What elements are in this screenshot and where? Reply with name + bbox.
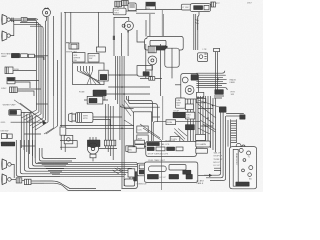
buzzer motor (43, 8, 51, 20)
node dash junctions (119, 74, 125, 95)
wire coil lead (146, 46, 165, 70)
body connector LH (1, 142, 15, 146)
wire generator leads (113, 5, 137, 56)
wire wiper leads (93, 117, 122, 125)
seat belt buzzer cluster (137, 163, 150, 176)
label washer (3, 105, 17, 107)
console column box (134, 112, 152, 147)
node harness junction (42, 121, 46, 125)
main bus left verticals (36, 50, 48, 122)
wire console feeds (124, 109, 160, 117)
wire cross horizontals (60, 116, 134, 129)
label list rear (213, 151, 223, 167)
wire main floor bundle (38, 162, 160, 176)
light switch LS (181, 4, 194, 10)
wire horn RR riser (10, 21, 14, 36)
wire floor harness inner (39, 148, 76, 161)
tail lamp plug (104, 140, 115, 146)
wire LS link (194, 6, 197, 8)
rear body connector boxes (196, 141, 210, 153)
connector park LF (11, 53, 34, 57)
wire right edge marks (194, 14, 199, 50)
wire horn LR lead (11, 164, 14, 178)
wire block LF (17, 89, 41, 96)
parking brake alarm (9, 110, 21, 116)
ignition switch assembly (181, 74, 199, 99)
wire rear harness curve (40, 181, 121, 190)
blower motor plug (240, 115, 245, 119)
connector block LF (10, 87, 18, 93)
lighter assembly (198, 53, 208, 62)
wire bundle right bends (121, 162, 137, 188)
wire bus ties left (21, 104, 48, 146)
label park lamp LF (1, 53, 12, 58)
divider wire center (162, 10, 163, 37)
wire bus join diagonals (21, 110, 57, 134)
side marker LF (5, 67, 19, 74)
dash cluster box (73, 63, 104, 85)
fuse panel hatch (165, 140, 181, 147)
wire bus corners top-left (14, 17, 48, 50)
panel ground strip (236, 182, 249, 186)
heater blower connector (219, 107, 226, 113)
wire turn LF (15, 80, 39, 88)
printed circuit connector (99, 70, 108, 81)
wire brake alarm (21, 112, 31, 122)
license lamp box (126, 146, 133, 152)
wire engine feed (140, 77, 162, 81)
wire console diagonals (122, 100, 134, 126)
wire cluster fan (78, 71, 101, 84)
wire right diagonals (198, 100, 219, 134)
wire panel risers (204, 113, 228, 181)
heater connector (214, 90, 235, 98)
rear harness block B (144, 162, 197, 182)
blower resistor ladder (231, 119, 237, 148)
washer jar box (66, 43, 79, 53)
wire feed C (64, 12, 66, 152)
washer pump assembly (84, 96, 108, 104)
horn RR (2, 174, 11, 185)
courtesy lamp boxes (196, 92, 205, 102)
wire blower leads (226, 114, 244, 116)
wire bundle slant ticks (112, 168, 123, 174)
wire gauge lead (99, 148, 117, 150)
wire feed A (53, 16, 55, 96)
divider wire lower (161, 96, 162, 190)
heater box right (137, 66, 152, 77)
wire jumper pair (214, 168, 221, 170)
label radio (230, 79, 237, 84)
solenoid box (165, 48, 179, 67)
junction block J1 (115, 1, 122, 7)
relay box LH (128, 169, 137, 181)
bus mid verticals (106, 104, 114, 160)
wiper motor box (185, 104, 193, 110)
stoplight switch (173, 110, 185, 117)
wire fuse feed (153, 122, 200, 148)
ground strap connector (87, 137, 100, 147)
dimmer connector cluster (190, 2, 220, 12)
note text top-right (247, 2, 252, 4)
wire feed B (60, 12, 62, 150)
wire floor harness corners (16, 140, 68, 176)
rear lamp box (124, 179, 134, 186)
turn signal box (170, 137, 180, 142)
junction block J2 (122, 0, 129, 5)
panel sockets (239, 148, 253, 176)
wire generator feed (64, 11, 113, 13)
label console (136, 183, 147, 185)
backup switch boxes (128, 140, 144, 152)
label dimmer LH (1, 131, 9, 133)
ignition switch block (146, 2, 155, 10)
connector horn RR (11, 178, 22, 183)
label fuel tank (148, 159, 165, 162)
wire side marker LF (13, 69, 36, 71)
horn LF (2, 15, 11, 25)
panel labels (248, 156, 253, 180)
glove box lamp (196, 134, 206, 147)
dimmer switch box (176, 98, 186, 108)
wire horn feed (10, 18, 25, 22)
horn LR (2, 159, 11, 170)
wiper motor assembly (69, 113, 93, 123)
wire horn to bus (27, 19, 38, 21)
washer switch SW2 (88, 53, 99, 62)
rear body panel (230, 147, 257, 189)
resistor end circles (236, 143, 245, 148)
horn relay HR (128, 3, 136, 11)
wire center risers (137, 14, 150, 42)
wire bus extra (54, 60, 58, 128)
voltage regulator VR (113, 8, 126, 15)
door switch box (60, 127, 66, 135)
wire dimmer drop (198, 12, 199, 30)
turn lamp LF (7, 77, 15, 83)
antenna lead symbol (196, 174, 212, 185)
neutral safety switch (185, 112, 194, 119)
wire right bundle (196, 71, 227, 90)
wire panel verticals (188, 99, 196, 155)
wire wiper feed drop (98, 12, 100, 47)
rear harness block A (146, 141, 197, 156)
wire ignition row (136, 10, 181, 14)
wire washer jar drop (66, 12, 71, 43)
connector C-horn (21, 18, 27, 22)
bus lower-left verticals (21, 112, 35, 158)
generator G (122, 21, 133, 30)
wire mid verticals (146, 44, 161, 96)
wire ground LH (11, 100, 45, 122)
label body feed (1, 142, 12, 145)
label junction LF (1, 88, 7, 90)
wiper switch SW1 (72, 53, 85, 62)
antenna mast (214, 48, 220, 90)
wire console crossers (140, 124, 161, 140)
wire park LF (34, 56, 48, 60)
label ground LH (1, 122, 6, 124)
box rear body corner (60, 141, 77, 148)
fuel gauge sender (87, 143, 98, 162)
wire fuse feed bends (120, 96, 160, 122)
wire fuse diagonals (174, 128, 187, 142)
label lighter (203, 49, 207, 51)
wire right harness verticals (198, 96, 216, 152)
wire solenoid drop (171, 67, 173, 78)
bus center verticals (116, 56, 125, 188)
flasher box (166, 120, 176, 125)
fuse block hatch (79, 90, 106, 100)
wiper feed box (96, 47, 105, 52)
jamb switch boxes (1, 134, 12, 139)
horn RF (2, 31, 11, 41)
connector horn trail (22, 179, 44, 184)
junction small box (64, 135, 73, 143)
grain overlay (0, 0, 263, 192)
accessory box (185, 125, 194, 130)
wire ignition feed (175, 84, 181, 86)
wire dash out A (106, 75, 150, 94)
ignition coil (148, 46, 157, 65)
distributor cluster center (145, 36, 184, 50)
